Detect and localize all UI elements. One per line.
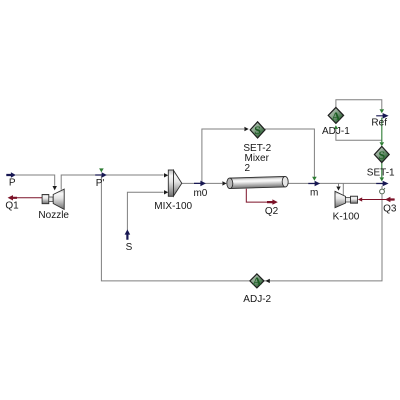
svg-text:A: A (332, 109, 341, 123)
svg-text:Nozzle: Nozzle (38, 210, 69, 221)
svg-text:m0: m0 (193, 188, 207, 199)
svg-text:P': P' (96, 178, 105, 189)
svg-text:ADJ-1: ADJ-1 (322, 126, 350, 137)
svg-text:Ref: Ref (371, 118, 387, 129)
svg-text:Q3: Q3 (383, 203, 397, 214)
svg-text:A: A (253, 274, 262, 288)
svg-text:Q1: Q1 (5, 200, 19, 211)
svg-text:K-100: K-100 (333, 212, 360, 223)
svg-text:SET-1: SET-1 (367, 168, 395, 179)
svg-text:m: m (310, 187, 318, 198)
svg-text:Q2: Q2 (265, 206, 279, 217)
svg-text:ADJ-2: ADJ-2 (243, 294, 271, 305)
svg-text:P: P (9, 178, 16, 189)
svg-text:2: 2 (245, 163, 251, 174)
svg-text:S: S (378, 148, 385, 162)
svg-text:S: S (254, 123, 261, 137)
svg-text:MIX-100: MIX-100 (154, 201, 192, 212)
svg-text:S: S (126, 242, 133, 253)
